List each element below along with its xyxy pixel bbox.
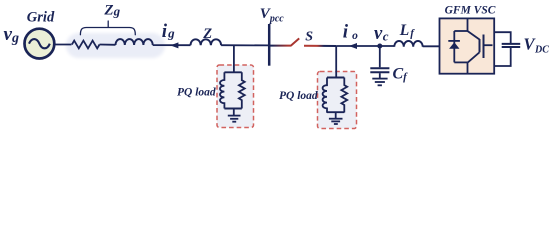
- VSC internal bottom stem: [467, 62, 469, 73]
- ground (PQ load 1): [228, 109, 241, 122]
- capacitor Cf plates: [370, 68, 389, 72]
- inductor (grid impedance Zg): [116, 39, 153, 45]
- brace over Zg: [80, 21, 135, 35]
- PQ load 2 bottom bar: [327, 111, 344, 113]
- diode branch wire: [453, 31, 455, 62]
- current arrow i_g: [170, 42, 178, 48]
- wire Zg to inductor Z: [153, 44, 191, 46]
- VSC box U1: [440, 18, 495, 73]
- svg-text:PQ load: PQ load: [177, 87, 216, 99]
- capacitor V_DC plates: [502, 44, 521, 47]
- wire VSC to DC link (bottom): [494, 48, 511, 66]
- wire Z to bus: [221, 44, 269, 46]
- svg-text:vc: vc: [374, 24, 389, 44]
- svg-text:VDC: VDC: [524, 35, 550, 56]
- resistor (grid impedance Zg): [72, 41, 100, 49]
- diode D1: [448, 41, 460, 49]
- ac source Vg (grid): [25, 29, 55, 59]
- IGBT Q1: [468, 31, 493, 62]
- switch S: wire from bus + blade: [269, 38, 299, 45]
- VSC internal top stem: [467, 18, 469, 31]
- PQ load 1 top bar: [224, 71, 241, 73]
- wire source to resistor: [54, 44, 72, 46]
- current arrow i_o: [349, 43, 357, 49]
- junction / feed wire to PQ load 2: [335, 46, 337, 78]
- highlight pill behind Zg impedance: [66, 33, 165, 58]
- ground (PQ load 2): [329, 112, 343, 124]
- PQ load 2 top bar: [327, 77, 344, 79]
- wire to converter: [336, 45, 394, 47]
- wire VSC to DC link (top): [494, 32, 511, 43]
- svg-text:io: io: [343, 21, 358, 42]
- inductor Z: [191, 39, 222, 45]
- switch S fixed contact segment + wire to PQ2 junction: [304, 45, 336, 47]
- resistor (PQ load 1): [239, 72, 245, 108]
- svg-text:Cf: Cf: [393, 66, 409, 83]
- svg-text:Grid: Grid: [27, 9, 55, 25]
- svg-text:vg: vg: [4, 24, 19, 46]
- svg-text:S: S: [305, 30, 313, 45]
- wire v_c down to capacitor Cf: [379, 46, 381, 67]
- svg-text:Zg: Zg: [103, 2, 120, 18]
- bus bar V_pcc: [268, 24, 271, 66]
- svg-text:GFM VSC: GFM VSC: [445, 4, 496, 16]
- VSC internal bottom rail: [454, 61, 468, 63]
- wire Lf to VSC box: [423, 45, 440, 47]
- inductor Lf: [394, 41, 422, 47]
- svg-text:Z: Z: [202, 26, 212, 42]
- PQ load 1 dashed box: [217, 65, 254, 128]
- resistor (PQ load 2): [341, 78, 347, 113]
- wire resistor to inductor: [100, 44, 116, 46]
- svg-text:Vpcc: Vpcc: [260, 6, 284, 25]
- svg-text:Lf: Lf: [399, 22, 415, 39]
- inductor (PQ load 1): [220, 72, 224, 108]
- ground (Cf): [372, 73, 387, 85]
- junction / feed wire to PQ load 1: [233, 45, 235, 72]
- svg-text:ig: ig: [162, 21, 175, 42]
- inductor (PQ load 2): [323, 78, 327, 113]
- VSC internal top rail: [454, 30, 467, 32]
- svg-text:PQ load: PQ load: [279, 90, 318, 102]
- PQ load 2 dashed box: [318, 72, 357, 129]
- PQ load 1 bottom bar: [224, 108, 241, 110]
- node v_c dot: [377, 44, 382, 49]
